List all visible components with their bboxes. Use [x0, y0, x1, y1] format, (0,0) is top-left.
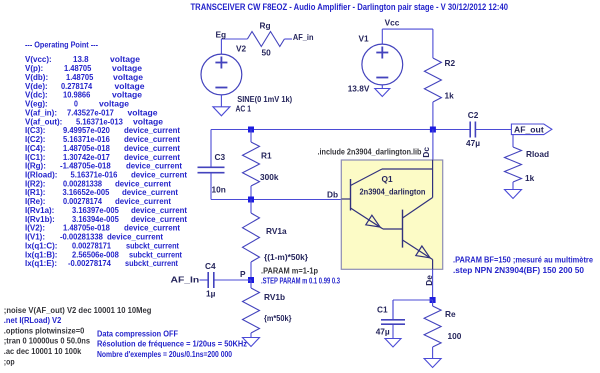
svg-text:{m*50k}: {m*50k} — [264, 313, 292, 323]
ground below C1 — [385, 339, 401, 348]
svg-text:Nombre d'exemples = 20us/0.1ns: Nombre d'exemples = 20us/0.1ns=200 000 — [97, 350, 232, 359]
svg-text:RV1b: RV1b — [264, 292, 285, 302]
wire V1 bottom — [381, 85, 383, 89]
svg-text:P: P — [240, 269, 246, 279]
svg-text:Rg: Rg — [260, 21, 271, 31]
voltage source V2 — [201, 54, 242, 95]
wire Vcc rail — [381, 29, 383, 44]
wire emitter to De — [432, 269, 434, 300]
wire to AF_in — [284, 38, 292, 40]
svg-text:Rload: Rload — [526, 149, 549, 159]
resistor R2 — [424, 58, 441, 102]
ground below V2 — [213, 107, 230, 116]
transistor Q1 darlington internals — [342, 160, 433, 270]
svg-text:V(af_in):7.43527e-017voltage: V(af_in):7.43527e-017voltage — [25, 108, 158, 117]
resistor Rg — [247, 32, 284, 47]
svg-text:1µ: 1µ — [206, 289, 216, 299]
svg-text:.include 2n3904_darlington.lib: .include 2n3904_darlington.lib — [318, 147, 422, 156]
wire R2 to node — [432, 102, 434, 130]
svg-text:.STEP PARAM m 0.1 0.99 0.3: .STEP PARAM m 0.1 0.99 0.3 — [261, 277, 340, 286]
svg-text:Q1: Q1 — [382, 174, 393, 184]
svg-text:Résolution de fréquence = 1/20: Résolution de fréquence = 1/20us = 50KHz — [97, 340, 247, 349]
wire Eg node — [220, 39, 222, 54]
svg-text:R1: R1 — [261, 151, 272, 161]
wire AF_out to Rload — [512, 135, 514, 147]
svg-text:Ix(q1:C):0.00278171subckt_curr: Ix(q1:C):0.00278171subckt_current — [25, 242, 179, 251]
svg-text:Data compression OFF: Data compression OFF — [97, 329, 178, 338]
node junction Dc — [430, 127, 436, 133]
capacitor C1 — [392, 300, 394, 320]
svg-text:300k: 300k — [260, 172, 279, 182]
svg-text:C3: C3 — [215, 152, 226, 162]
capacitor C2 — [436, 129, 470, 131]
svg-text:C1: C1 — [377, 305, 388, 315]
svg-text:.net I(RLoad) V2: .net I(RLoad) V2 — [4, 316, 62, 325]
port AF_out — [511, 124, 552, 135]
resistor Rload — [505, 147, 522, 182]
svg-text:.PARAM BF=150 ;mesuré au multi: .PARAM BF=150 ;mesuré au multimètre — [453, 256, 594, 265]
svg-text:Ix(q1:E):-0.00278174subckt_cur: Ix(q1:E):-0.00278174subckt_current — [25, 259, 178, 268]
svg-text:V(de):0.278174voltage: V(de):0.278174voltage — [25, 82, 145, 91]
ground below V1 — [375, 89, 390, 97]
svg-text:100: 100 — [448, 331, 462, 341]
svg-text:--- Operating Point ---: --- Operating Point --- — [25, 41, 98, 50]
svg-text:I(Rv1a):3.16397e-005device_cur: I(Rv1a):3.16397e-005device_current — [25, 206, 187, 215]
svg-text:1k: 1k — [445, 91, 455, 101]
node junction De — [430, 297, 436, 303]
svg-text:.step NPN 2N3904(BF) 150 200 5: .step NPN 2N3904(BF) 150 200 50 — [453, 266, 585, 275]
svg-text:AF_in: AF_in — [293, 32, 314, 42]
svg-text:V(vcc):13.8voltage: V(vcc):13.8voltage — [25, 55, 141, 64]
svg-text:V(eg):0voltage: V(eg):0voltage — [25, 100, 130, 109]
wire De to C1 — [393, 299, 433, 301]
svg-text:C2: C2 — [468, 110, 479, 120]
svg-text:AC 1: AC 1 — [236, 104, 252, 114]
svg-text:V1: V1 — [359, 33, 370, 43]
svg-text:Eg: Eg — [216, 30, 227, 40]
wire V2 bottom — [220, 95, 222, 107]
wire Db rail — [211, 199, 353, 201]
svg-text:V2: V2 — [236, 44, 247, 54]
svg-text:50: 50 — [262, 48, 272, 58]
subcircuit box Q1 — [341, 160, 442, 269]
wire Rload bottom — [512, 182, 514, 190]
svg-text:De: De — [424, 275, 434, 286]
svg-text:47µ: 47µ — [376, 327, 390, 337]
svg-text:V(p):1.48705voltage: V(p):1.48705voltage — [25, 64, 143, 73]
svg-text:Vcc: Vcc — [385, 18, 400, 28]
resistor Re — [432, 300, 434, 306]
node junction Db — [248, 197, 254, 203]
svg-text:;tran 0 10000us 0 50.0ns: ;tran 0 10000us 0 50.0ns — [4, 337, 91, 346]
svg-text:{(1-m)*50k}: {(1-m)*50k} — [264, 252, 309, 262]
svg-text:Ix(q1:B):2.56506e-008subckt_cu: Ix(q1:B):2.56506e-008subckt_current — [25, 250, 182, 259]
svg-text:I(Rload):5.16371e-016device_cu: I(Rload):5.16371e-016device_current — [25, 171, 187, 180]
voltage source V1 — [362, 44, 403, 85]
svg-text:Dc: Dc — [421, 147, 431, 158]
ground below Rload — [505, 190, 522, 199]
svg-text:.PARAM m=1-1p: .PARAM m=1-1p — [261, 266, 318, 275]
node junction P — [248, 277, 254, 283]
svg-text:47µ: 47µ — [466, 138, 480, 148]
resistor RV1b — [250, 280, 252, 288]
svg-text:1k: 1k — [525, 173, 535, 183]
svg-text:V(db):1.48705voltage: V(db):1.48705voltage — [25, 73, 144, 82]
svg-text:;noise V(AF_out) V2 dec 10001: ;noise V(AF_out) V2 dec 10001 10 10Meg — [4, 306, 152, 315]
svg-text:Re: Re — [445, 309, 456, 319]
node junction R1 top — [248, 127, 254, 133]
svg-text:;op: ;op — [4, 357, 15, 366]
svg-text:10n: 10n — [212, 185, 226, 195]
svg-text:R2: R2 — [445, 58, 456, 68]
svg-text:2n3904_darlington: 2n3904_darlington — [360, 187, 426, 197]
resistor RV1a — [250, 200, 252, 214]
svg-text:AF_out: AF_out — [514, 124, 544, 134]
wire down to Q1 collector — [432, 130, 434, 161]
wire Db to base — [352, 199, 354, 201]
svg-text:.ac dec 10001 10 100k: .ac dec 10001 10 100k — [4, 347, 82, 356]
wire Dc rail — [211, 129, 470, 131]
svg-text:TRANSCEIVER CW F8EOZ - Audio A: TRANSCEIVER CW F8EOZ - Audio Amplifier -… — [191, 2, 509, 12]
svg-text:I(Rv1b):3.16394e-005device_cur: I(Rv1b):3.16394e-005device_current — [25, 215, 187, 224]
svg-text:AF_In: AF_In — [171, 275, 200, 285]
capacitor C4 — [200, 279, 209, 281]
svg-text:.options plotwinsize=0: .options plotwinsize=0 — [4, 326, 85, 335]
svg-text:C4: C4 — [205, 261, 216, 271]
capacitor C3 — [210, 130, 212, 168]
svg-text:V(dc):10.9866voltage: V(dc):10.9866voltage — [25, 91, 143, 100]
svg-text:SINE(0 1mV 1k): SINE(0 1mV 1k) — [237, 94, 292, 104]
svg-text:13.8V: 13.8V — [348, 84, 370, 94]
svg-text:Db: Db — [327, 190, 338, 200]
ground below Re — [424, 359, 441, 368]
ground below RV1b — [243, 338, 260, 347]
resistor R1 — [250, 130, 252, 143]
svg-text:RV1a: RV1a — [266, 226, 287, 236]
svg-text:V(af_out):5.16371e-013voltage: V(af_out):5.16371e-013voltage — [25, 117, 164, 126]
